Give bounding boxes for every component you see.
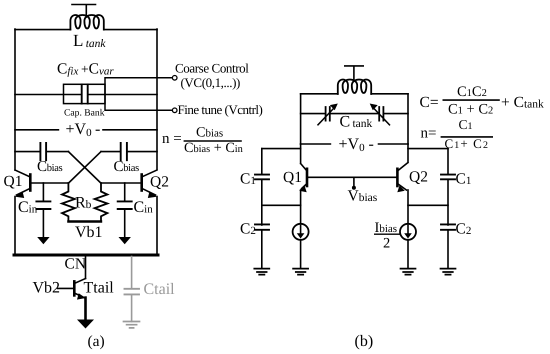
svg-text:Fine tune (Vcntrl): Fine tune (Vcntrl) <box>178 102 263 117</box>
svg-text:(b): (b) <box>355 333 374 350</box>
svg-text:Ctail: Ctail <box>144 281 176 298</box>
wire base row Q1 <box>30 182 68 184</box>
capacitor Cbias left <box>15 143 68 160</box>
wire right rail (b) <box>407 94 409 144</box>
wire +V0 left (a) <box>15 129 58 131</box>
svg-text:-: - <box>95 121 100 138</box>
wire CN stub <box>85 257 87 279</box>
ground current source right <box>401 269 416 275</box>
wire right rail lower (a) <box>156 197 158 256</box>
wire Ttail emitter to ground <box>84 298 87 320</box>
wire +V0 extension to C1 left <box>262 148 301 150</box>
svg-text:C1C2: C1C2 <box>457 84 487 100</box>
svg-text:Q1: Q1 <box>283 169 302 186</box>
current source left (b) <box>293 224 309 269</box>
svg-text:C1: C1 <box>459 117 473 132</box>
svg-text:-: - <box>369 136 374 153</box>
svg-text:Cbias: Cbias <box>37 159 63 175</box>
capacitor C2 left <box>255 224 269 268</box>
coarse/fine selection box <box>105 78 172 111</box>
svg-text:Ttail: Ttail <box>84 280 115 297</box>
svg-text:+ Ctank: + Ctank <box>501 94 544 111</box>
wire bottom CN bus (a) <box>14 254 158 257</box>
svg-text:L tank: L tank <box>73 31 106 50</box>
svg-text:Q1: Q1 <box>4 173 23 190</box>
capacitor Cin right <box>118 183 132 244</box>
supply bar (b) <box>345 66 363 80</box>
ground C2 left <box>254 269 269 275</box>
svg-text:Cbias: Cbias <box>196 125 223 141</box>
wire top-left (a) <box>15 29 70 31</box>
wire Vb1 connector <box>68 220 101 222</box>
svg-text:Cfix +Cvar: Cfix +Cvar <box>57 61 114 78</box>
svg-text:C tank: C tank <box>340 114 373 131</box>
cap bank box <box>64 84 106 103</box>
wire cross-couple left-to-right <box>68 152 101 184</box>
svg-text:Cbias + Cin: Cbias + Cin <box>184 140 244 156</box>
varactor right <box>370 104 390 125</box>
wire cap-bank row right <box>88 94 157 96</box>
svg-text:CN: CN <box>65 256 87 273</box>
svg-text:Rb: Rb <box>75 195 92 212</box>
svg-text:+V0: +V0 <box>339 136 366 154</box>
wire base row Q2 <box>101 182 142 184</box>
svg-text:Vb2: Vb2 <box>33 280 61 297</box>
wire top-right (a) <box>104 29 157 31</box>
ground Ctail (gray) <box>124 322 140 328</box>
wire base row (b) <box>307 176 397 178</box>
equation n=C1/(C1+C2) <box>421 117 494 151</box>
transistor Q2 (b) <box>397 144 408 192</box>
wire Q1b emitter rail <box>300 190 302 224</box>
transistor Q1 (b) <box>299 144 307 192</box>
svg-text:Coarse Control: Coarse Control <box>175 61 249 76</box>
wire left rail (b) <box>300 94 302 144</box>
capacitor C1 left <box>255 149 269 225</box>
wire left rail lower (a) <box>14 197 16 256</box>
wire cap-bank row left <box>15 94 81 96</box>
wire Q2b emitter rail <box>407 190 409 224</box>
svg-text:+V0: +V0 <box>66 121 93 139</box>
svg-text:(VC(0,1,...)): (VC(0,1,...)) <box>181 75 240 90</box>
capacitor Cbias right <box>101 143 157 160</box>
svg-text:C1+ C2: C1+ C2 <box>445 136 490 151</box>
equation C=C1C2/(C1+C2)+Ctank <box>420 84 545 118</box>
label Ibias/2 <box>374 220 400 252</box>
resistor Rb right <box>95 183 108 222</box>
transistor Q1 (a) <box>15 170 30 198</box>
svg-text:C2: C2 <box>240 221 256 238</box>
svg-text:C2: C2 <box>456 221 472 238</box>
capacitor C2 right <box>441 224 455 268</box>
svg-text:2: 2 <box>383 236 390 252</box>
wire C1C2 junction to emitter left <box>262 204 301 206</box>
svg-text:Q2: Q2 <box>150 174 169 191</box>
wire +V0 right (b) <box>379 143 409 145</box>
capacitor C1 right <box>441 149 455 225</box>
svg-text:Cap. Bank: Cap. Bank <box>64 108 105 119</box>
Vbias stub <box>353 177 355 187</box>
transistor Ttail <box>58 279 86 300</box>
capacitor Ctail (gray) <box>125 257 140 322</box>
svg-text:Vbias: Vbias <box>348 188 378 205</box>
wire cross-couple right-to-left <box>68 152 101 184</box>
wire C1C2 junction to emitter right <box>408 204 448 206</box>
capacitor bank plates <box>82 85 88 104</box>
equation n=Cbias/(Cbias+Cin) <box>162 125 244 157</box>
ground current source left <box>293 269 308 275</box>
ground C2 right <box>441 269 456 275</box>
wire right rail upper (a) <box>156 29 158 170</box>
svg-text:n =: n = <box>162 131 182 147</box>
wire top-left (b) <box>301 93 338 95</box>
svg-text:C1 + C2: C1 + C2 <box>448 101 493 117</box>
inductor (b) <box>338 80 371 95</box>
svg-text:Cin: Cin <box>18 199 38 216</box>
svg-text:(a): (a) <box>88 333 105 350</box>
wire +V0 extension to C1 right <box>408 148 448 150</box>
svg-text:Vb1: Vb1 <box>75 224 103 241</box>
wire top-right (b) <box>371 93 408 95</box>
wire +V0 right (a) <box>103 129 157 131</box>
wire left rail upper (a) <box>14 29 16 170</box>
varactor line segments <box>301 113 408 115</box>
varactor left <box>318 104 338 125</box>
terminal fine <box>172 108 177 113</box>
svg-text:Q2: Q2 <box>409 168 428 185</box>
ground (a) <box>77 320 94 329</box>
svg-text:Cbias: Cbias <box>114 159 140 175</box>
capacitor Cin left <box>36 183 50 244</box>
svg-text:C1: C1 <box>240 171 256 188</box>
junction dot Vbias <box>352 186 356 190</box>
svg-text:n=: n= <box>421 126 437 142</box>
terminal coarse <box>172 76 177 81</box>
resistor Rb left <box>62 183 75 222</box>
current source right (b) <box>400 224 416 269</box>
supply bar (a) <box>72 5 96 18</box>
transistor Q2 (a) <box>142 170 157 198</box>
svg-text:Cin: Cin <box>134 199 154 216</box>
inductor Ltank <box>70 15 103 30</box>
svg-text:C1: C1 <box>456 171 472 188</box>
svg-text:C=: C= <box>420 94 439 111</box>
wire +V0 left (b) <box>301 143 331 145</box>
